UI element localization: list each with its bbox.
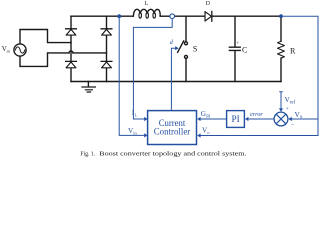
svg-text:Controller: Controller bbox=[154, 126, 191, 136]
svg-text:S: S bbox=[193, 45, 197, 54]
svg-text:D: D bbox=[206, 1, 210, 7]
svg-text:–: – bbox=[290, 122, 294, 128]
svg-text:PI: PI bbox=[232, 114, 240, 124]
svg-text:L: L bbox=[135, 113, 138, 118]
svg-text:+: + bbox=[286, 106, 289, 112]
svg-text:pj: pj bbox=[206, 114, 210, 119]
svg-text:ref: ref bbox=[290, 101, 296, 106]
svg-text:Boost converter topology and c: Boost converter topology and control sys… bbox=[99, 151, 247, 158]
svg-text:Fig. 1.: Fig. 1. bbox=[80, 151, 95, 158]
svg-text:R: R bbox=[290, 46, 296, 55]
svg-text:C: C bbox=[242, 45, 248, 54]
svg-text:L: L bbox=[145, 1, 149, 7]
svg-text:+: + bbox=[236, 40, 239, 46]
svg-text:error: error bbox=[250, 111, 263, 118]
